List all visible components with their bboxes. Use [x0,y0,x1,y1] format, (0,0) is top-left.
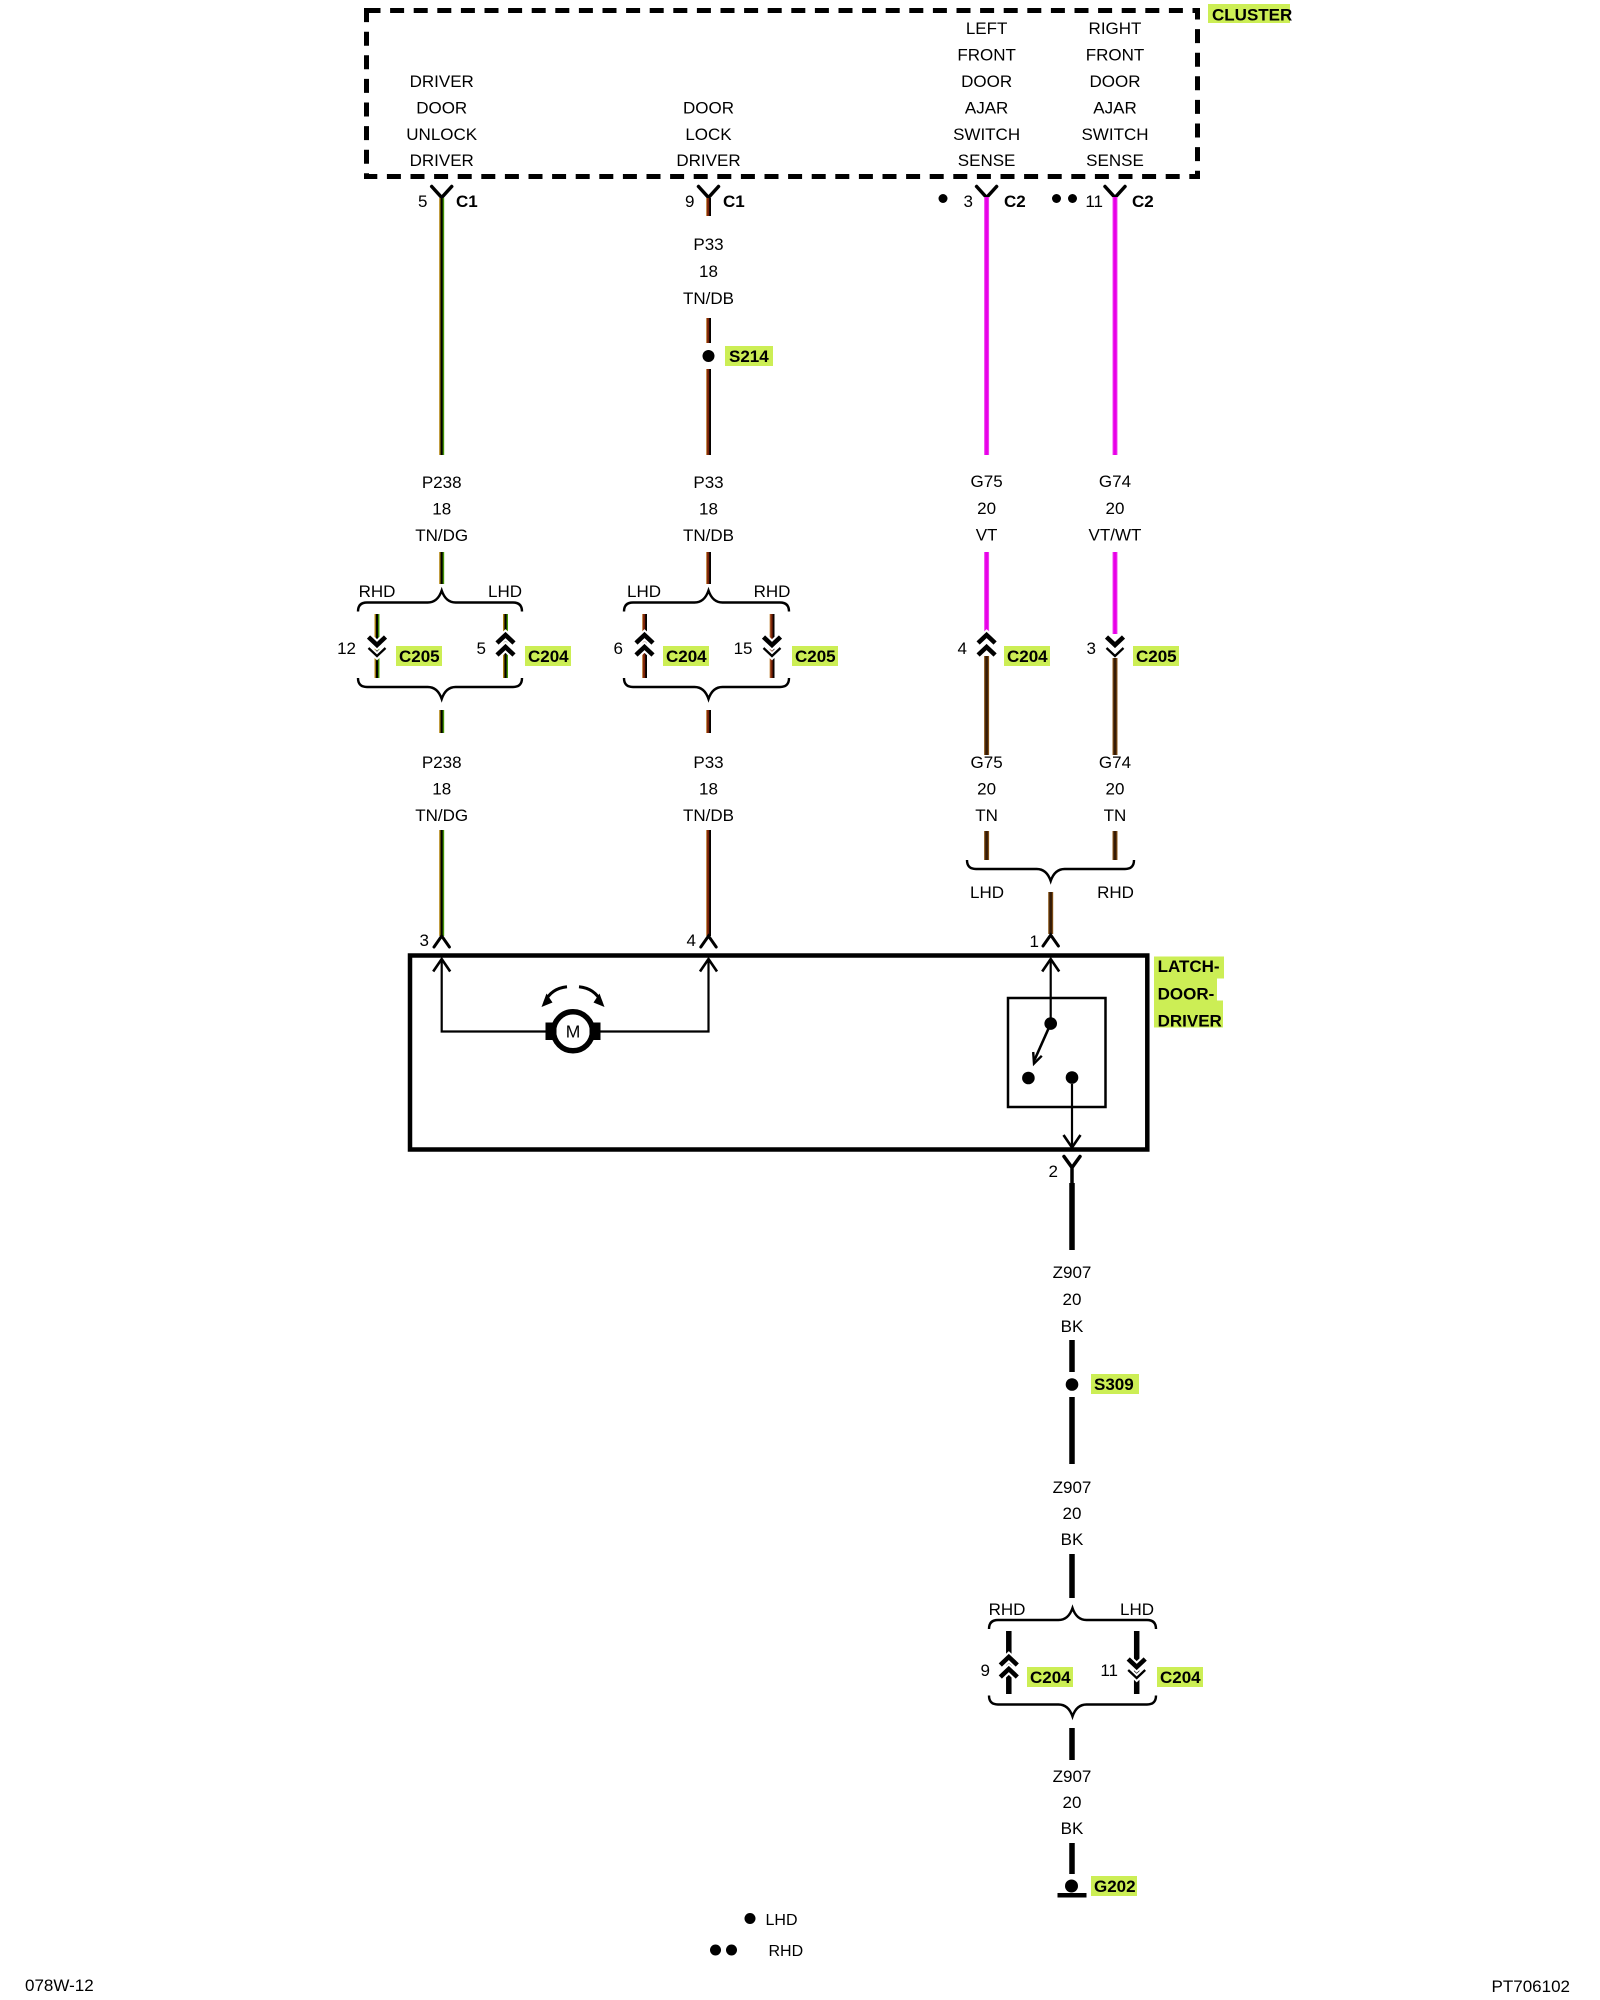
label P33 18 TN/DB lower [683,753,734,825]
svg-text:DRIVER: DRIVER [410,72,474,91]
internal wire pin 4 to motor [601,959,718,1032]
wire RHD branch TN/DB [770,614,775,678]
svg-text:LEFT: LEFT [966,19,1008,38]
svg-text:18: 18 [699,780,718,799]
svg-text:RHD: RHD [989,1600,1026,1619]
svg-text:078W-12: 078W-12 [25,1976,94,1995]
label P33 18 TN/DB middle [683,473,734,545]
svg-text:S309: S309 [1094,1375,1134,1394]
wire RHD branch BK [1006,1631,1012,1694]
svg-text:Z907: Z907 [1053,1478,1092,1497]
in-line connector 6 C204 [614,635,709,666]
wire VT above connector 4 [984,552,989,636]
svg-text:G75: G75 [971,472,1003,491]
svg-text:S214: S214 [729,347,769,366]
svg-text:20: 20 [1106,499,1125,518]
svg-text:18: 18 [699,500,718,519]
in-line connector 12 C205 [337,637,442,666]
wire segment TN/DG above split [439,552,444,584]
svg-text:LATCH-: LATCH- [1158,957,1220,976]
svg-text:4: 4 [687,931,696,950]
svg-text:SENSE: SENSE [1086,151,1144,170]
brace merge bottom [989,1696,1156,1717]
svg-text:5: 5 [477,639,486,658]
label CLUSTER [1208,4,1292,25]
svg-text:20: 20 [1063,1290,1082,1309]
svg-text:CLUSTER: CLUSTER [1212,6,1292,25]
svg-text:6: 6 [614,639,623,658]
wire G74 VT from pin 11 [1113,197,1118,455]
label LATCH-DOOR-DRIVER [1154,957,1224,1031]
svg-text:TN/DB: TN/DB [683,806,734,825]
svg-text:VT: VT [976,526,998,545]
switch lever [1033,1024,1051,1064]
label P33 18 TN/DB top [683,235,734,308]
svg-text:TN/DG: TN/DG [415,526,468,545]
legend RHD [710,1943,803,1960]
svg-text:11: 11 [1085,192,1103,211]
latch pin 3 [420,931,450,950]
svg-text:C204: C204 [1160,1668,1201,1687]
svg-text:AJAR: AJAR [1093,98,1136,117]
wire segment BK above bottom split [1069,1554,1075,1598]
svg-text:DOOR-: DOOR- [1158,985,1215,1004]
svg-text:C204: C204 [1030,1668,1071,1687]
wire LHD branch TN/DG [503,614,508,678]
cluster module dashed box [367,11,1198,177]
wire TN/DG to latch pin 3 [439,830,444,936]
svg-text:DOOR: DOOR [416,98,467,117]
latch pin 1 [1030,932,1059,951]
svg-text:2: 2 [1049,1162,1058,1181]
footer part number PT706102 [1492,1977,1570,1996]
svg-text:18: 18 [432,500,451,519]
wire BK below splice [1069,1397,1075,1464]
svg-text:TN/DG: TN/DG [415,806,468,825]
motor rotation arrows [542,987,605,1007]
svg-text:TN: TN [1104,806,1127,825]
in-line connector 5 C204 [477,635,571,666]
svg-text:M: M [566,1022,581,1042]
wire TN/DB to latch pin 4 [706,830,711,936]
in-line connector 9 C204 [981,1657,1073,1687]
svg-text:C204: C204 [666,647,707,666]
svg-text:C205: C205 [399,647,440,666]
label G74 20 VT/WT [1089,472,1142,545]
RHD variant dots [1052,194,1077,203]
svg-text:RHD: RHD [769,1943,804,1960]
switch contact right [1066,1071,1079,1084]
svg-text:TN/DB: TN/DB [683,526,734,545]
svg-text:SWITCH: SWITCH [953,125,1020,144]
svg-text:PT706102: PT706102 [1492,1977,1570,1996]
svg-text:SENSE: SENSE [958,151,1016,170]
switch sub-box [1008,998,1106,1107]
svg-text:P238: P238 [422,473,462,492]
svg-text:Z907: Z907 [1053,1263,1092,1282]
wire segment BK above splice [1069,1340,1075,1372]
wire segment TN/DB above splice [706,318,711,343]
svg-text:P238: P238 [422,753,462,772]
svg-text:G74: G74 [1099,753,1131,772]
connector pin 9 C1 [685,187,745,212]
svg-text:4: 4 [958,639,967,658]
connector pin 11 C2 [1085,187,1153,212]
wire Z907 BK from pin 2 [1069,1183,1075,1250]
svg-text:12: 12 [337,639,356,658]
svg-text:5: 5 [418,192,427,211]
svg-text:18: 18 [432,780,451,799]
cluster pin label RIGHT FRONT DOOR AJAR SWITCH SENSE [1081,19,1148,170]
wire LHD branch TN/DB [642,614,647,678]
svg-text:P33: P33 [693,753,723,772]
brace merge column 2 [624,678,789,699]
wire TN to merge brace left [984,831,989,860]
svg-text:RIGHT: RIGHT [1089,19,1142,38]
svg-text:RHD: RHD [754,582,791,601]
svg-text:FRONT: FRONT [957,46,1016,65]
latch pin 2 [1049,1157,1080,1184]
svg-text:UNLOCK: UNLOCK [406,125,478,144]
svg-text:G75: G75 [971,753,1003,772]
svg-text:TN/DB: TN/DB [683,289,734,308]
internal wire switch to pin 2 [1064,1084,1081,1148]
svg-text:P33: P33 [693,235,723,254]
svg-text:G202: G202 [1094,1877,1136,1896]
svg-text:15: 15 [734,639,753,658]
footer sheet number 078W-12 [25,1976,94,1995]
svg-text:20: 20 [1063,1793,1082,1812]
switch contact left [1022,1072,1035,1085]
svg-text:11: 11 [1100,1661,1118,1680]
wire G75 VT from pin 3 [984,197,989,455]
svg-text:LHD: LHD [970,883,1004,902]
cluster pin label DOOR LOCK DRIVER [676,98,740,170]
svg-text:C204: C204 [1007,647,1048,666]
label Z907 20 BK lower [1053,1767,1092,1838]
svg-text:LOCK: LOCK [685,125,732,144]
wire segment BK below bottom merge [1069,1728,1075,1760]
svg-text:DRIVER: DRIVER [410,151,474,170]
svg-text:C1: C1 [456,192,478,211]
cluster pin label LEFT FRONT DOOR AJAR SWITCH SENSE [953,19,1020,170]
wire stub TN/DB below pin 9 [706,198,711,216]
label G74 20 TN [1099,753,1131,825]
brace merge LHD/RHD to latch pin 1 [967,860,1134,902]
label G75 20 VT [971,472,1003,545]
svg-text:DOOR: DOOR [683,98,734,117]
svg-text:LHD: LHD [627,582,661,601]
svg-text:FRONT: FRONT [1086,46,1145,65]
wire G74 TN below connector [1113,658,1118,755]
svg-text:LHD: LHD [1120,1600,1154,1619]
wire RHD branch TN/DG [375,614,380,678]
svg-text:C2: C2 [1004,192,1026,211]
label G75 20 TN [971,753,1003,825]
svg-text:DRIVER: DRIVER [676,151,740,170]
motor M [546,1012,601,1051]
connector pin 3 C2 [964,187,1026,212]
svg-text:VT/WT: VT/WT [1089,526,1142,545]
LHD variant dot [939,194,948,203]
brace RHD/LHD split column 1 [358,582,522,612]
svg-text:DRIVER: DRIVER [1158,1012,1222,1031]
svg-text:9: 9 [685,192,694,211]
cluster pin label DRIVER DOOR UNLOCK DRIVER [406,72,478,170]
svg-text:C204: C204 [528,647,569,666]
in-line connector 4 C204 [958,635,1050,666]
svg-text:BK: BK [1061,1530,1084,1549]
svg-text:BK: BK [1061,1317,1084,1336]
brace RHD/LHD split bottom [989,1600,1156,1629]
in-line connector 15 C205 [734,637,838,666]
internal wire pin 1 to switch [1042,959,1059,1023]
svg-text:DOOR: DOOR [961,72,1012,91]
svg-text:20: 20 [977,499,996,518]
svg-text:3: 3 [1087,639,1096,658]
svg-text:20: 20 [977,780,996,799]
switch common contact [1044,1017,1057,1030]
wire segment TN/DG below merge [439,710,444,733]
wire G75 TN below connector [984,656,989,755]
label Z907 20 BK middle [1053,1478,1092,1549]
svg-text:P33: P33 [693,473,723,492]
svg-text:1: 1 [1030,932,1039,951]
wire TN/DB below splice [706,369,711,455]
legend LHD [745,1912,798,1929]
svg-text:3: 3 [420,931,429,950]
svg-text:BK: BK [1061,1819,1084,1838]
svg-text:G74: G74 [1099,472,1131,491]
wire TN to latch pin 1 [1048,892,1053,934]
wire P238 TN/DG from pin 5 [439,198,444,455]
svg-text:20: 20 [1106,780,1125,799]
svg-text:LHD: LHD [766,1912,798,1929]
svg-text:LHD: LHD [488,582,522,601]
svg-text:C205: C205 [1136,647,1177,666]
svg-text:20: 20 [1063,1504,1082,1523]
splice S214 [703,346,774,366]
svg-text:C2: C2 [1132,192,1154,211]
svg-text:Z907: Z907 [1053,1767,1092,1786]
internal wire pin 3 to motor [433,959,545,1032]
svg-text:RHD: RHD [1097,883,1134,902]
svg-text:3: 3 [964,192,973,211]
svg-text:18: 18 [699,262,718,281]
svg-text:C205: C205 [795,647,836,666]
wire LHD branch BK [1134,1631,1140,1694]
svg-text:C1: C1 [723,192,745,211]
svg-text:RHD: RHD [359,582,396,601]
ground G202 [1058,1876,1138,1898]
wire VT above connector 3 [1113,552,1118,634]
wire segment TN/DB below merge [706,710,711,733]
label P238 18 TN/DG upper [415,473,468,545]
splice S309 [1066,1374,1139,1394]
latch-door-driver box [410,956,1147,1150]
label Z907 20 BK upper [1053,1263,1092,1336]
brace LHD/RHD split column 2 [624,582,790,612]
wire segment TN/DB above split [706,552,711,584]
in-line connector 11 C204 [1100,1659,1203,1687]
svg-text:DOOR: DOOR [1090,72,1141,91]
svg-text:9: 9 [981,1661,990,1680]
svg-text:AJAR: AJAR [965,98,1008,117]
svg-text:TN: TN [975,806,998,825]
wire TN to merge brace right [1113,831,1118,860]
wire BK to ground [1069,1843,1075,1874]
latch pin 4 [687,931,717,950]
in-line connector 3 C205 [1087,637,1179,666]
svg-text:SWITCH: SWITCH [1081,125,1148,144]
connector pin 5 C1 [418,187,478,212]
brace merge column 1 [358,678,522,699]
label P238 18 TN/DG lower [415,753,468,825]
